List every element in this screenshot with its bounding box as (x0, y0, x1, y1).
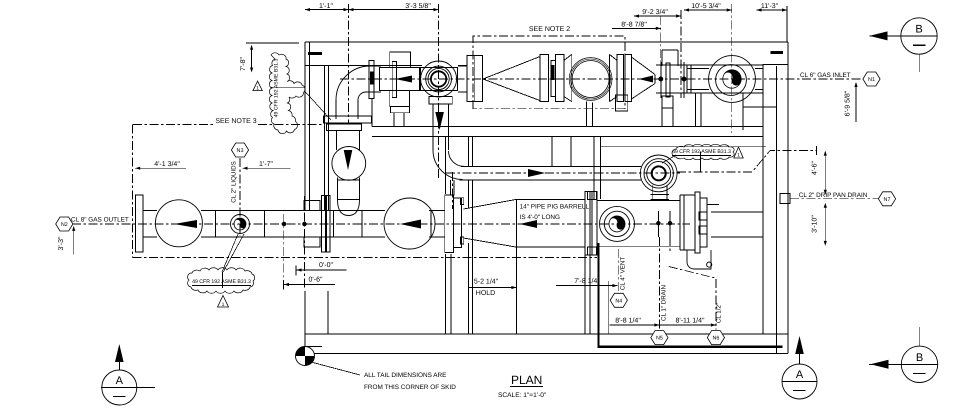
svg-text:N4: N4 (615, 298, 622, 304)
svg-text:3'-3": 3'-3" (58, 236, 65, 250)
svg-text:CL 4" VENT: CL 4" VENT (620, 257, 627, 290)
svg-text:49 CFR 192 ASME B31.3: 49 CFR 192 ASME B31.3 (672, 149, 731, 155)
svg-text:5-2 1/4": 5-2 1/4" (474, 278, 499, 286)
svg-text:3'-10": 3'-10" (812, 215, 819, 233)
svg-text:CL 2" LIQUIDS: CL 2" LIQUIDS (231, 161, 238, 203)
svg-text:8'-11 1/4": 8'-11 1/4" (676, 317, 706, 325)
svg-text:7'-8": 7'-8" (240, 57, 247, 71)
svg-text:N2: N2 (61, 222, 68, 228)
svg-text:49 CFR 192 ASME B31.3: 49 CFR 192 ASME B31.3 (192, 279, 251, 285)
svg-text:8'-8 1/4": 8'-8 1/4" (615, 317, 641, 325)
svg-text:CL 2" DRIP PAN DRAIN: CL 2" DRIP PAN DRAIN (799, 192, 868, 199)
svg-text:6'-9 5/8": 6'-9 5/8" (844, 90, 852, 116)
svg-text:9'-2 3/4": 9'-2 3/4" (642, 8, 668, 16)
svg-text:1: 1 (256, 86, 259, 92)
svg-text:ALL TAIL DIMENSIONS ARE: ALL TAIL DIMENSIONS ARE (364, 372, 446, 379)
svg-text:7'-8 1/4": 7'-8 1/4" (574, 277, 600, 285)
svg-text:IS 4'-0" LONG: IS 4'-0" LONG (520, 214, 560, 221)
svg-text:0'-0": 0'-0" (319, 262, 333, 269)
svg-text:CL 6" GAS INLET: CL 6" GAS INLET (800, 72, 851, 79)
svg-text:10'-5 3/4": 10'-5 3/4" (691, 2, 721, 10)
svg-text:HOLD: HOLD (476, 290, 495, 297)
svg-text:N5: N5 (656, 336, 663, 342)
svg-text:PLAN: PLAN (511, 373, 542, 387)
svg-text:SEE NOTE 2: SEE NOTE 2 (529, 26, 570, 33)
svg-text:3'-3 5/8": 3'-3 5/8" (405, 2, 431, 10)
svg-text:N7: N7 (884, 197, 891, 203)
svg-text:N1: N1 (868, 77, 875, 83)
svg-text:FROM THIS CORNER OF SKID: FROM THIS CORNER OF SKID (364, 384, 456, 391)
svg-text:A: A (796, 369, 804, 381)
svg-text:11'-3": 11'-3" (761, 3, 779, 10)
svg-text:1: 1 (737, 153, 740, 159)
svg-text:N6: N6 (712, 336, 719, 342)
svg-text:B: B (915, 24, 922, 36)
svg-text:B: B (916, 352, 923, 364)
svg-text:1'-1": 1'-1" (319, 3, 333, 10)
svg-text:A: A (116, 375, 124, 387)
svg-text:SCALE: 1"=1'-0": SCALE: 1"=1'-0" (498, 392, 547, 399)
svg-text:14" PIPE PIG BARRELL: 14" PIPE PIG BARRELL (520, 204, 590, 211)
svg-text:CL 1" DRAIN: CL 1" DRAIN (661, 285, 668, 321)
svg-text:0'-6": 0'-6" (309, 277, 323, 284)
svg-text:CL 8" GAS OUTLET: CL 8" GAS OUTLET (71, 217, 129, 224)
svg-text:N3: N3 (237, 148, 244, 154)
svg-text:4'-6": 4'-6" (812, 161, 819, 175)
svg-text:1'-7": 1'-7" (259, 161, 273, 168)
svg-text:SEE NOTE 3: SEE NOTE 3 (215, 118, 256, 125)
svg-text:49 CFR 192 ASME B31.3: 49 CFR 192 ASME B31.3 (274, 58, 280, 117)
svg-text:8'-8 7/8": 8'-8 7/8" (621, 21, 647, 29)
svg-text:4'-1 3/4": 4'-1 3/4" (154, 160, 180, 168)
svg-text:1: 1 (222, 302, 225, 308)
svg-text:CL 1/2": CL 1/2" (716, 303, 723, 323)
